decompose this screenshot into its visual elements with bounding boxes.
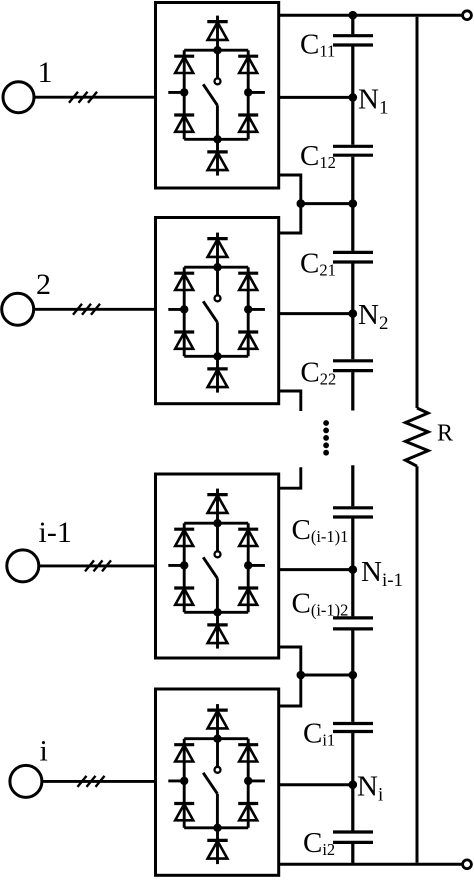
svg-text:C(i-1)2: C(i-1)2 — [292, 588, 349, 620]
rectifier cell box 2 — [156, 218, 279, 404]
capacitor C21 plates — [333, 252, 373, 262]
wire box4 to node Ni — [279, 783, 353, 786]
phase slashes input 2 — [73, 304, 100, 315]
svg-text:i-1: i-1 — [39, 516, 72, 549]
junction dot 3-4 — [297, 671, 306, 680]
load branch wire bottom — [416, 466, 419, 863]
input terminal circle at y=97.2 — [3, 82, 34, 113]
wire box3 to node Ni-1 — [279, 568, 353, 571]
wire input 1 to box 1 — [34, 96, 156, 99]
diode bridge with switch, cell 2 — [168, 233, 265, 393]
diode bridge with switch, cell 3 — [168, 489, 265, 649]
resistor R zigzag — [405, 408, 428, 466]
capacitor C(i-1)1 plates — [333, 508, 373, 517]
svg-text:Ci2: Ci2 — [303, 827, 335, 859]
wire input i-1 to box 3 — [39, 564, 156, 567]
svg-text:N1: N1 — [358, 84, 388, 119]
wire box1 bottom terminal — [279, 175, 301, 233]
node Ni-1 dot — [349, 565, 358, 574]
top output terminal — [463, 11, 472, 20]
wire input i to box 4 — [42, 780, 156, 783]
phase slashes input i-1 — [85, 560, 111, 571]
capacitor Ci2 plates — [333, 832, 373, 842]
junction 3-4 bus node dot — [349, 671, 358, 680]
rectifier cell box 4 — [156, 689, 279, 875]
junction 1-2 bus node dot — [349, 199, 358, 208]
input terminal circle at y=565.9 — [7, 550, 39, 582]
phase slashes input 1 — [69, 92, 97, 103]
node Ni dot — [349, 780, 358, 789]
wire box3 top stub — [279, 467, 301, 488]
bottom output terminal — [463, 860, 472, 869]
capacitor C(i-1)2 plates — [333, 618, 373, 629]
junction dot 1-2 — [297, 199, 306, 208]
input terminal circle at y=309.3 — [2, 293, 34, 325]
phase slashes input i — [78, 776, 105, 787]
svg-text:R: R — [437, 421, 453, 447]
capacitor Ci1 plates — [333, 724, 373, 732]
rectifier cell box 1 — [156, 3, 279, 189]
wire junction 3-4 to bus — [301, 674, 353, 677]
svg-text:N2: N2 — [358, 299, 388, 334]
svg-text:1: 1 — [38, 56, 53, 89]
bottom output rail — [279, 863, 462, 866]
svg-text:C12: C12 — [300, 140, 336, 172]
svg-text:2: 2 — [36, 268, 51, 301]
capacitor C22 plates — [333, 361, 373, 371]
diode bridge with switch, cell 4 — [168, 704, 265, 864]
wire box2 bottom stub — [279, 391, 301, 411]
node N2 dot — [349, 309, 358, 318]
svg-text:C11: C11 — [300, 28, 335, 60]
input terminal circle at y=781.4 — [10, 765, 42, 797]
node N1 dot — [349, 93, 358, 102]
wire input 2 to box 2 — [34, 308, 156, 311]
svg-text:Ci1: Ci1 — [303, 717, 335, 749]
capacitor C12 plates — [333, 146, 373, 155]
wire box3 bottom terminal — [279, 647, 301, 706]
svg-text:C(i-1)1: C(i-1)1 — [292, 514, 349, 546]
capacitor bus vertical segments — [351, 17, 354, 865]
rectifier cell box 3 — [156, 474, 279, 658]
svg-text:i: i — [40, 735, 48, 768]
vertical ellipsis (repeated cells) — [323, 420, 329, 456]
svg-text:C21: C21 — [300, 247, 336, 279]
diode bridge with switch, cell 1 — [168, 16, 265, 176]
wire box1 to node N1 — [279, 96, 353, 99]
capacitor C11 plates — [333, 36, 373, 45]
svg-text:Ni: Ni — [357, 771, 383, 806]
top rail node dot — [349, 11, 358, 20]
top output rail — [279, 14, 462, 17]
load branch wire top — [416, 17, 419, 408]
wire junction 1-2 to bus — [301, 202, 353, 205]
svg-text:Ni-1: Ni-1 — [361, 556, 403, 591]
svg-text:C22: C22 — [300, 356, 336, 388]
wire box2 to node N2 — [279, 312, 353, 315]
